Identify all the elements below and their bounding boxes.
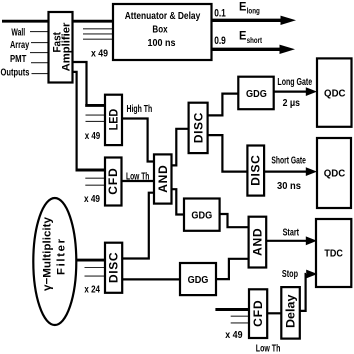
multiplicity filter ellipse — [33, 198, 76, 325]
coincidence box: AND (second) — [249, 217, 267, 268]
svg-text:QDC: QDC — [324, 87, 346, 99]
svg-text:Wall: Wall — [11, 26, 25, 38]
wire: PMT stub — [31, 62, 49, 64]
wire: Outputs stub — [32, 73, 49, 75]
discriminator box: DISC (second) — [247, 146, 264, 196]
svg-text:AND: AND — [156, 165, 170, 193]
svg-text:LED: LED — [106, 109, 120, 131]
gate generator box: GDG (long gate) — [238, 77, 273, 110]
wire: DISC to GDG (multiplicity to stop gate) — [122, 278, 180, 280]
gate generator box: GDG (lower) — [180, 263, 216, 295]
wire: LED to AND (high threshold) — [122, 119, 154, 162]
wire arrow: AND to TDC start — [266, 240, 306, 242]
discriminator box: CFD (stop) — [249, 289, 267, 338]
svg-text:0.1: 0.1 — [214, 7, 226, 19]
wire: thick input into CFD (stop branch) — [215, 308, 249, 311]
svg-text:x 49: x 49 — [84, 193, 100, 205]
wire: AND to GDG (lower output) — [172, 189, 185, 214]
wire: main input bus into Fast Amplifier — [2, 20, 49, 23]
svg-text:TDC: TDC — [324, 248, 343, 260]
wire: GDG to AND2 (upper input) — [220, 214, 249, 227]
svg-text:x 49: x 49 — [225, 329, 242, 341]
svg-text:Low Th: Low Th — [256, 343, 281, 354]
wire: thin lines into DISC — [85, 267, 106, 269]
svg-text:Amplifier: Amplifier — [60, 22, 72, 72]
wire: CFD to AND (low threshold) — [122, 180, 155, 182]
adc box: QDC (bottom) — [317, 138, 351, 208]
wire: Wall stub — [30, 31, 49, 33]
discriminator box: DISC (first) — [189, 103, 208, 153]
discriminator box: DISC (multiplicity) — [105, 243, 122, 293]
wire: DISC to DISC (short gate path) — [208, 135, 248, 172]
wire: Array stub — [31, 42, 49, 44]
wire: Fast Amplifier to LED — [73, 62, 87, 104]
svg-text:Box: Box — [152, 24, 167, 36]
wire: DISC to AND (multiplicity branch up) — [122, 193, 154, 259]
svg-text:short: short — [247, 35, 262, 45]
svg-text:CFD: CFD — [251, 300, 265, 327]
wire: DISC to GDG (long gate) — [208, 94, 239, 116]
wire: AND to DISC (upper output) — [172, 129, 189, 166]
svg-text:0.9: 0.9 — [214, 35, 226, 47]
wire: thick bus Fast Amplifier to Attenuator — [73, 20, 114, 23]
wire: GDG to AND2 (lower input) — [216, 259, 249, 279]
wire: thin lines into LED — [86, 114, 106, 116]
gate generator box: GDG (middle) — [184, 199, 220, 231]
svg-text:30 ns: 30 ns — [277, 180, 301, 192]
box: Attenuator & Delay Box 100 ns — [113, 4, 212, 60]
svg-text:AND: AND — [251, 228, 265, 256]
svg-text:DISC: DISC — [249, 155, 263, 186]
svg-text:High Th: High Th — [127, 103, 153, 115]
svg-text:Stop: Stop — [282, 268, 298, 280]
wire: thin bus lines to Attenuator — [83, 28, 113, 30]
wire: ellipse to DISC (multiplicity) — [76, 259, 106, 262]
wire arrow: GDG to QDC gate — [274, 90, 306, 92]
svg-text:Outputs: Outputs — [1, 67, 30, 79]
svg-text:x 49: x 49 — [91, 48, 108, 60]
svg-text:Short Gate: Short Gate — [271, 155, 306, 167]
svg-text:long: long — [247, 6, 260, 16]
delay box: Delay — [281, 287, 300, 339]
coincidence box: AND (first) — [154, 154, 172, 203]
svg-text:CFD: CFD — [106, 168, 120, 195]
svg-text:E: E — [239, 31, 247, 43]
discriminator box: LED — [105, 95, 122, 145]
adc box: QDC (top) — [317, 58, 352, 126]
tdc box: TDC — [316, 219, 351, 287]
svg-text:DISC: DISC — [191, 112, 205, 143]
wire: thin lines into CFD (stop branch) — [231, 315, 249, 317]
wire: CFD to Delay — [267, 312, 281, 314]
svg-text:γ−Multiplicity: γ−Multiplicity — [42, 216, 54, 291]
wire: Fast Amplifier to CFD — [73, 72, 77, 169]
svg-text:x 24: x 24 — [84, 284, 100, 296]
amplifier box: Fast Amplifier — [49, 12, 73, 83]
svg-text:Filter: Filter — [56, 238, 68, 275]
wire arrow: E_long output — [212, 19, 283, 22]
svg-text:2 μs: 2 μs — [283, 97, 301, 109]
wire arrow: DISC to QDC gate — [264, 171, 306, 173]
svg-text:Attenuator & Delay: Attenuator & Delay — [125, 10, 201, 22]
svg-text:Delay: Delay — [284, 294, 298, 328]
svg-text:PMT: PMT — [10, 53, 27, 65]
svg-text:Long Gate: Long Gate — [277, 76, 312, 88]
svg-text:GDG: GDG — [246, 88, 267, 100]
svg-text:100 ns: 100 ns — [148, 37, 176, 49]
svg-text:Array: Array — [10, 39, 29, 51]
wire arrow: E_short output — [212, 48, 281, 51]
svg-text:Start: Start — [283, 227, 300, 239]
wire arrow: Delay to TDC stop — [300, 274, 306, 311]
wire: thin lines into CFD — [85, 177, 105, 179]
svg-text:QDC: QDC — [324, 168, 346, 180]
svg-text:GDG: GDG — [188, 274, 209, 286]
svg-text:x 49: x 49 — [85, 130, 101, 142]
svg-text:DISC: DISC — [107, 252, 121, 283]
discriminator box: CFD — [105, 158, 122, 206]
svg-text:GDG: GDG — [191, 210, 212, 222]
wire: unlabeled channel stub — [30, 52, 49, 54]
svg-text:E: E — [239, 2, 247, 14]
